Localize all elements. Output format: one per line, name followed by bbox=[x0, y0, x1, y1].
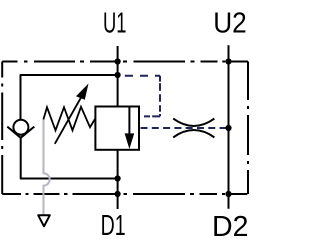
svg-text:U2: U2 bbox=[213, 8, 247, 40]
check valve CV1 (ball) bbox=[13, 120, 28, 135]
relief valve body V1 bbox=[95, 107, 139, 150]
orifice / restrictor O1 bbox=[173, 119, 214, 138]
junction dot U1 pilot/check branch bbox=[115, 72, 121, 78]
relief valve flow path arrow (normally closed, flow down) bbox=[128, 107, 130, 136]
adjustable spring bbox=[43, 107, 95, 131]
pilot line (dashed blue) from valve through orifice to U2 wire bbox=[141, 127, 229, 129]
port label U1 bbox=[103, 8, 127, 40]
pilot line (dashed blue) from U1 junction to valve right side bbox=[125, 76, 160, 117]
drain-to-tank triangle bbox=[38, 215, 50, 226]
svg-text:D2: D2 bbox=[212, 211, 249, 243]
wire U2-D2 (right vertical) bbox=[228, 45, 230, 208]
port label D2 bbox=[212, 211, 249, 243]
enclosure boundary left edge (dash-dot) bbox=[1, 62, 3, 195]
wire check-valve branch top (from U1 wire to left) bbox=[21, 75, 118, 120]
junction dot D2 at boundary bbox=[225, 191, 231, 197]
junction dot U1 at boundary bbox=[115, 58, 121, 64]
svg-text:U1: U1 bbox=[103, 8, 127, 40]
junction dot D1 check branch bbox=[115, 175, 121, 181]
enclosure boundary top edge (dash-dot) bbox=[2, 61, 248, 63]
junction dot U2 pilot bbox=[225, 125, 231, 131]
svg-text:D1: D1 bbox=[101, 210, 126, 242]
wire U1-D1 (main vertical) bbox=[117, 46, 119, 209]
junction dot D1 at boundary bbox=[115, 191, 121, 197]
port label D1 bbox=[101, 210, 126, 242]
check valve CV1 seat bbox=[7, 127, 34, 138]
drain line (gray) from spring end to tank bbox=[44, 120, 50, 216]
port label U2 bbox=[213, 8, 247, 40]
junction dot U2 at boundary bbox=[225, 58, 231, 64]
enclosure boundary bottom edge (dash-dot) bbox=[2, 193, 247, 195]
wire check-valve branch bottom (down and right to U1 wire) bbox=[21, 137, 118, 178]
adjustment arrow (diagonal through spring) bbox=[55, 98, 81, 144]
enclosure boundary right edge (dash-dot) bbox=[247, 62, 249, 195]
